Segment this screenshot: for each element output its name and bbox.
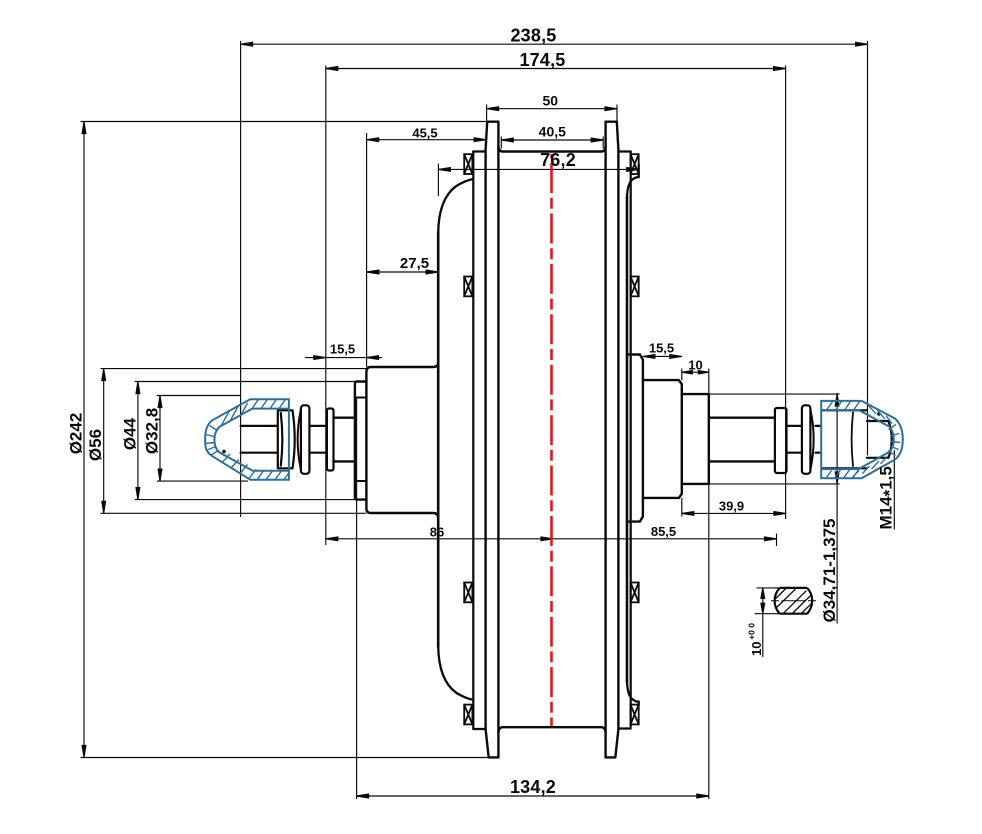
svg-text:0: 0: [746, 623, 756, 628]
right dropout claw inner: [821, 410, 894, 469]
punch mark left: [222, 450, 225, 453]
svg-text:40,5: 40,5: [539, 124, 566, 140]
left dropout claw outer: [205, 399, 289, 480]
shell top face between flanges: [498, 147, 605, 152]
hub shell top-right corner: [627, 177, 639, 198]
svg-text:Ø32,8: Ø32,8: [143, 408, 162, 454]
dim line 15,5 left (outside arrows): [305, 357, 367, 359]
svg-text:86: 86: [430, 524, 444, 539]
dim line 15,5 right: [643, 355, 682, 357]
ext stubs for 50: [487, 105, 617, 122]
svg-text:15,5: 15,5: [649, 341, 674, 356]
svg-text:15,5: 15,5: [330, 342, 355, 357]
right cover step 2: [643, 380, 682, 498]
axle section centerline: [771, 600, 816, 602]
svg-text:Ø44: Ø44: [120, 417, 139, 450]
axle section flats ext lines: [755, 588, 809, 614]
left cover ring O44: [355, 382, 367, 500]
O44 ext lines: [135, 382, 355, 500]
right claw hatching: [826, 401, 900, 478]
dim line O242: [83, 122, 85, 758]
ext line step2 face: [681, 369, 683, 517]
axle acorn nut right: [822, 410, 867, 468]
left cover boss O56: [366, 363, 438, 518]
hub shell top-left corner: [438, 179, 473, 233]
spoke flange left: [486, 122, 489, 757]
svg-text:10: 10: [688, 357, 702, 372]
svg-text:50: 50: [543, 92, 559, 108]
ext line left boss face upper: [366, 133, 368, 367]
dim line 76,2: [438, 168, 638, 170]
bottom shoulders outside flanges: [473, 727, 630, 730]
bearing seam boxes right column: [631, 154, 639, 724]
right dropout claw outer: [821, 401, 903, 478]
right cover step 1: [627, 355, 643, 522]
O32,8 ext lines: [157, 396, 248, 482]
ext stub 85,5 right: [776, 534, 778, 547]
dim line 27,5: [367, 271, 438, 273]
svg-text:+0: +0: [746, 630, 756, 640]
dim line 174,5: [326, 68, 786, 70]
dim line 10 right: [682, 371, 709, 373]
spoke flange right: [615, 122, 618, 757]
svg-text:Ø56: Ø56: [86, 429, 105, 461]
svg-text:134,2: 134,2: [510, 777, 556, 797]
hub shell bottom-left corner: [438, 646, 473, 700]
hub shell bottom-right corner: [627, 681, 639, 702]
axle flats left end: [241, 426, 327, 453]
washer at left shoulder: [327, 409, 334, 471]
svg-text:39,9: 39,9: [719, 499, 744, 514]
bearing seam boxes left column: [464, 154, 472, 724]
red centerline: [550, 154, 553, 726]
axle sleeve left: [334, 418, 355, 462]
right rim outer stub: [638, 165, 640, 706]
dim line 86 / 85,5: [326, 538, 777, 540]
svg-text:85,5: 85,5: [651, 524, 676, 539]
dim line 238,5: [241, 43, 868, 45]
svg-text:27,5: 27,5: [400, 255, 429, 272]
dim line 10 axle section: [762, 588, 764, 657]
ext stubs for 40,5: [501, 137, 603, 149]
dim line O32,8: [159, 396, 161, 482]
svg-text:Ø242: Ø242: [67, 413, 86, 455]
shell bottom face between flanges: [498, 727, 605, 732]
ext line axle right end: [867, 41, 869, 456]
dim line 50: [487, 108, 617, 110]
svg-text:76,2: 76,2: [540, 150, 576, 170]
ext line flange top horizontal left: [81, 121, 488, 123]
axle section hatch: [775, 588, 812, 614]
serrated washer left: [301, 405, 310, 474]
axle cross-section circle: [775, 588, 813, 614]
O56 ext lines: [101, 369, 367, 514]
axle flats right: [787, 426, 822, 453]
svg-text:M14*1,5: M14*1,5: [877, 466, 899, 529]
hub shell right wall: [626, 197, 629, 682]
label 10 +0/0 tolerance: [746, 623, 764, 656]
left dropout claw inner: [214, 409, 289, 471]
top shoulders outside flanges: [473, 150, 630, 152]
axle nut left: [278, 410, 293, 468]
acorn nut dome: [867, 421, 892, 458]
dim line O44: [137, 382, 139, 500]
ext line right thread boss for 134,2: [708, 369, 710, 800]
svg-text:Ø34,71-1,375: Ø34,71-1,375: [820, 519, 839, 623]
hub shell left wall: [437, 232, 440, 647]
ext line flange bottom horizontal left: [81, 757, 490, 759]
ext line left cover face for 134,2: [356, 398, 358, 800]
ext line left axle shoulder: [325, 66, 327, 546]
serrated washer right: [802, 405, 811, 474]
left cover recess edges: [357, 398, 367, 482]
svg-text:238,5: 238,5: [510, 26, 556, 46]
punch mark right: [877, 412, 880, 415]
left claw hatching: [205, 399, 289, 480]
axle sleeve right: [709, 418, 775, 462]
svg-text:45,5: 45,5: [412, 126, 437, 141]
dim line 45,5: [367, 139, 487, 141]
right cover step 3 (freewheel thread boss): [682, 394, 709, 484]
hub shell right rim edge (liner): [630, 152, 632, 727]
dim line O56: [103, 369, 105, 514]
dim/underline O34,71-1,375: [836, 393, 838, 624]
dim line 134,2: [357, 795, 709, 797]
svg-text:10: 10: [749, 642, 764, 656]
ext line axle left end: [240, 41, 242, 517]
washer at right shoulder: [775, 408, 787, 473]
dim line 40,5: [501, 139, 603, 141]
hub shell left rim edge (liner): [472, 152, 474, 729]
ext stub 76,2 left: [437, 164, 439, 197]
ext line right washer face: [785, 66, 787, 520]
dim line 39,9: [682, 512, 786, 514]
svg-text:174,5: 174,5: [519, 50, 565, 70]
O34,71 ext lines: [709, 394, 840, 484]
underline M14x1,5: [893, 450, 895, 530]
